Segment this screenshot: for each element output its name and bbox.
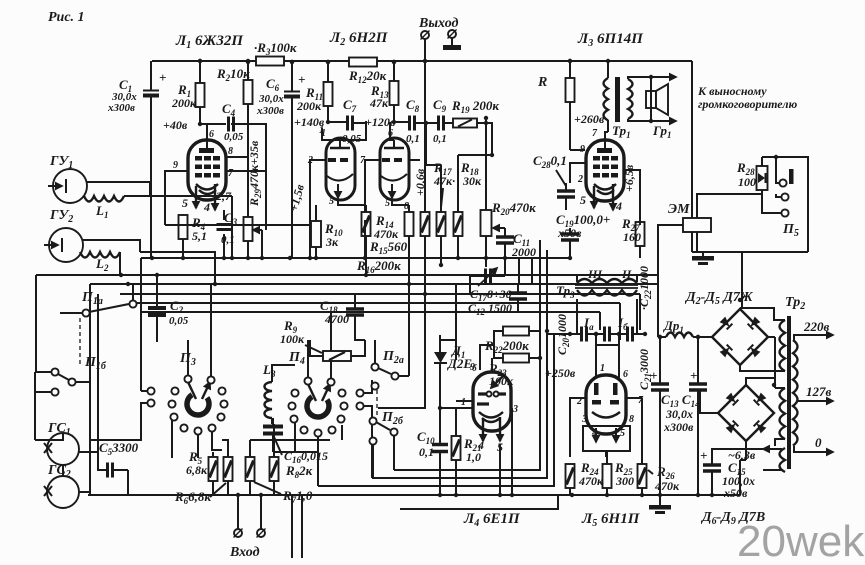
resistor R21 1,0 <box>452 436 461 460</box>
svg-text:1,0: 1,0 <box>466 450 481 464</box>
potentiometer R20 470k <box>481 210 492 236</box>
svg-text:0,1: 0,1 <box>406 133 420 145</box>
svg-text:Тр1: Тр1 <box>612 123 631 140</box>
svg-text:+: + <box>690 368 697 383</box>
potentiometer R29 470k+35v <box>244 217 253 241</box>
svg-text:47к: 47к <box>369 96 389 110</box>
svg-text:3к: 3к <box>325 235 339 249</box>
variable capacitor C17 <box>470 268 505 286</box>
svg-text:R19 200к: R19 200к <box>451 98 499 115</box>
svg-text:К выносному: К выносному <box>697 84 767 98</box>
svg-text:R20470к: R20470к <box>491 200 536 217</box>
coil L1 <box>84 196 124 202</box>
svg-text:8: 8 <box>228 146 233 157</box>
vacuum tube L1 <box>173 125 234 214</box>
svg-text:4: 4 <box>203 200 210 214</box>
resistor R <box>566 78 575 102</box>
svg-text:+120в: +120в <box>365 115 396 129</box>
ground EM <box>692 256 714 265</box>
svg-text:30,0х: 30,0х <box>258 93 284 105</box>
svg-text:Л2 6Н2П: Л2 6Н2П <box>329 30 389 48</box>
resistor R10 3k <box>311 221 321 247</box>
resistor R24 470k <box>566 464 575 488</box>
loudspeaker Gr1 <box>646 75 676 140</box>
P4 wires <box>295 312 372 486</box>
diode D1 D2E <box>434 335 472 436</box>
svg-text:+: + <box>650 368 657 383</box>
svg-text:П1б: П1б <box>84 355 107 372</box>
resistor R1 200k <box>196 83 205 107</box>
svg-text:127в: 127в <box>806 384 832 399</box>
svg-text:+40в: +40в <box>163 118 188 132</box>
svg-text:х50в: х50в <box>723 486 748 500</box>
diode bridge 2 <box>718 385 774 441</box>
svg-text:6: 6 <box>209 129 214 140</box>
svg-text:6,8к: 6,8к <box>186 463 208 477</box>
svg-text:+260в: +260в <box>574 112 605 126</box>
coil L2 <box>80 252 120 258</box>
svg-text:30,0х: 30,0х <box>665 407 693 421</box>
svg-text:0: 0 <box>815 435 822 450</box>
resistor R28 100 <box>757 166 768 190</box>
svg-text:Д2-Д5 Д7Ж: Д2-Д5 Д7Ж <box>684 290 754 307</box>
svg-text:R22200к: R22200к <box>484 338 529 355</box>
resistor R12 20k on bus <box>349 58 377 67</box>
mid vertical wires <box>318 240 554 486</box>
svg-text:1: 1 <box>461 397 466 408</box>
L2A pin wires <box>310 121 366 220</box>
svg-text:Iа: Iа <box>583 315 594 332</box>
dashed link <box>79 318 81 366</box>
svg-text:3: 3 <box>581 414 587 425</box>
tube L5 dual triode <box>576 363 644 439</box>
svg-text:R15560: R15560 <box>369 239 408 256</box>
resistor R8 2k <box>270 457 279 481</box>
output terminal 2 grounded <box>448 30 457 39</box>
bridge2 wires <box>700 378 774 460</box>
svg-text:5: 5 <box>385 198 390 209</box>
svg-text:·R3100к: ·R3100к <box>254 40 297 57</box>
svg-text:5: 5 <box>182 196 188 210</box>
gs wires <box>35 433 90 492</box>
svg-text:С6: С6 <box>266 76 280 93</box>
svg-text:470к: 470к <box>654 479 680 493</box>
wires to bus <box>165 196 365 258</box>
svg-text:R66,8к: R66,8к <box>174 489 211 506</box>
resistor bank wires <box>213 424 330 495</box>
svg-text:L2: L2 <box>95 256 109 273</box>
svg-text:220в: 220в <box>803 319 830 334</box>
bottom bus <box>88 494 740 496</box>
capacitor C9 0,1 <box>439 116 444 131</box>
capacitor C16 0,015 <box>263 427 283 434</box>
svg-text:Рис. 1: Рис. 1 <box>48 10 85 25</box>
svg-text:+1,5в: +1,5в <box>286 182 307 213</box>
capacitor C1 <box>143 91 159 96</box>
svg-text:200к: 200к <box>296 99 322 113</box>
svg-text:30к: 30к <box>462 174 482 188</box>
svg-text:С4: С4 <box>222 101 236 118</box>
Tr2 left winding lower <box>780 388 786 439</box>
top supply bus <box>152 60 692 62</box>
resistor R15 <box>405 212 414 236</box>
svg-text:+6,5в: +6,5в <box>622 164 636 192</box>
svg-text:ЭМ: ЭМ <box>668 202 690 217</box>
L5 cathode box <box>583 426 630 451</box>
P4 outer contacts <box>356 380 372 420</box>
resistor bank r17a <box>421 212 430 236</box>
L3 pin wires <box>570 132 640 225</box>
diode bridge 1 <box>712 309 768 365</box>
capacitor C7 0,05 <box>348 116 353 131</box>
resistor R27 160 <box>636 222 645 246</box>
transformer Tr1 <box>604 59 652 140</box>
vacuum tube L3 <box>577 128 624 213</box>
capacitor C6 <box>284 92 300 97</box>
svg-text:300: 300 <box>615 474 634 488</box>
svg-text:6: 6 <box>623 369 628 380</box>
svg-text:1: 1 <box>600 363 605 374</box>
dashed link p2 <box>376 390 378 416</box>
svg-text:·С221000: ·С221000 <box>637 266 653 310</box>
svg-text:7: 7 <box>592 128 598 139</box>
svg-text:Выход: Выход <box>418 16 459 31</box>
resistor R23 100k <box>503 354 529 363</box>
output terminal 1 <box>421 31 430 40</box>
svg-text:47к·: 47к· <box>433 174 455 188</box>
svg-text:+: + <box>298 72 305 87</box>
svg-text:2: 2 <box>577 174 583 185</box>
svg-text:Л5 6Н1П: Л5 6Н1П <box>581 511 641 529</box>
svg-text:+: + <box>700 448 707 463</box>
L2B pin wires <box>365 122 420 220</box>
svg-text:0,05: 0,05 <box>224 131 244 143</box>
resistor R22 200k <box>503 327 529 336</box>
input terminals <box>234 529 243 538</box>
svg-text:+250в: +250в <box>545 366 576 380</box>
svg-text:5,1: 5,1 <box>192 229 207 243</box>
svg-text:х300в: х300в <box>256 105 284 117</box>
svg-text:П1а: П1а <box>81 290 103 307</box>
svg-text:Л1 6Ж32П: Л1 6Ж32П <box>175 33 244 51</box>
Tr2 right winding <box>793 340 798 446</box>
capacitor C4 <box>229 117 234 132</box>
resistor R6 6,8k <box>224 457 233 481</box>
tube L2 half A <box>307 125 355 207</box>
svg-text:Гр1: Гр1 <box>652 123 672 140</box>
bus drops right <box>600 275 658 340</box>
svg-text:8: 8 <box>629 414 634 425</box>
Tr2 left winding upper <box>780 320 786 371</box>
svg-text:С53300: С53300 <box>99 440 139 457</box>
resistor R25 300 <box>603 464 612 488</box>
svg-text:R210к: R210к <box>216 66 250 83</box>
resistor R19 200k <box>453 119 477 128</box>
capacitor C11 2000 <box>496 237 514 243</box>
svg-text:9: 9 <box>470 362 475 373</box>
svg-text:ГУ2: ГУ2 <box>49 208 73 225</box>
svg-text:470к: 470к <box>578 474 604 488</box>
svg-text:4700: 4700 <box>324 312 349 326</box>
capacitor C12 1500 <box>509 293 527 299</box>
resistor R13 47k <box>390 81 399 105</box>
svg-text:100: 100 <box>738 175 756 189</box>
resistor R5 6,8k <box>209 457 218 481</box>
svg-text:С12 1500: С12 1500 <box>468 301 512 317</box>
resistor R3 on bus <box>256 57 284 66</box>
L1 pin wires <box>165 124 266 230</box>
right frame wire <box>691 61 693 252</box>
svg-text:20wek: 20wek <box>737 517 865 565</box>
svg-text:R1220к: R1220к <box>348 68 387 85</box>
svg-text:х300в: х300в <box>663 420 694 434</box>
svg-text:L1: L1 <box>95 203 108 220</box>
svg-text:Тр2: Тр2 <box>785 295 805 312</box>
svg-text:Вход: Вход <box>229 545 260 560</box>
capacitor C3 0,1 <box>217 225 232 230</box>
L5 pin wires <box>570 398 642 457</box>
svg-text:5: 5 <box>580 193 586 207</box>
resistor R11 200k <box>324 82 333 106</box>
Tr2 bottom winding <box>780 448 786 472</box>
svg-text:С8: С8 <box>406 97 420 114</box>
svg-text:С9: С9 <box>433 97 447 114</box>
resistor R2 10k <box>244 80 253 104</box>
svg-text:П4: П4 <box>288 350 305 367</box>
resistor R4 5,1 <box>179 215 188 239</box>
svg-text:громкоговорителю: громкоговорителю <box>698 97 797 111</box>
svg-text:9: 9 <box>173 160 178 171</box>
svg-text:Л3 6П14П: Л3 6П14П <box>577 31 644 49</box>
capacitor C8 0,1 <box>410 116 415 131</box>
resistor R18 30k <box>454 212 463 236</box>
switch P5 <box>776 157 794 217</box>
svg-text:R16200к: R16200к <box>356 258 401 275</box>
P3 outer contacts <box>141 387 155 420</box>
svg-text:2000: 2000 <box>511 245 536 259</box>
svg-text:R82к: R82к <box>285 463 313 480</box>
svg-text:Л4 6Е1П: Л4 6Е1П <box>463 511 521 529</box>
svg-text:160: 160 <box>623 230 641 244</box>
svg-text:П5: П5 <box>782 222 799 239</box>
svg-text:200к: 200к <box>171 96 197 110</box>
resistor R14 470k <box>362 212 371 236</box>
main bus rows <box>141 257 570 259</box>
P3 wires <box>172 284 222 458</box>
svg-text:4: 4 <box>615 199 622 213</box>
svg-text:С2: С2 <box>170 298 184 315</box>
bridge1 wires <box>693 308 775 388</box>
svg-text:П2а: П2а <box>382 349 404 366</box>
svg-text:+: + <box>159 70 166 85</box>
svg-text:5: 5 <box>620 428 625 439</box>
capacitor C2 0,05 <box>148 308 166 315</box>
tube L4 magic eye <box>461 362 518 454</box>
svg-text:100к: 100к <box>280 332 305 346</box>
L4 pin wires <box>456 358 512 495</box>
resistor R26 470k <box>638 464 647 488</box>
resistor R17 47k <box>437 212 446 236</box>
svg-text:R71,0: R71,0 <box>282 488 313 505</box>
svg-text:R29470к+35в: R29470к+35в <box>247 140 263 207</box>
svg-text:0,1: 0,1 <box>433 133 447 145</box>
bus drop left <box>90 284 98 495</box>
svg-text:4: 4 <box>477 438 484 452</box>
svg-text:х300в: х300в <box>107 102 135 114</box>
svg-text:R: R <box>537 75 547 90</box>
svg-text:Тр3: Тр3 <box>556 283 575 300</box>
svg-text:7: 7 <box>228 168 234 179</box>
svg-text:П2б: П2б <box>381 410 404 427</box>
right frame from R28 to Tr2 <box>692 157 808 308</box>
ground center <box>659 495 661 505</box>
svg-text:0,1: 0,1 <box>419 445 434 459</box>
svg-text:С7: С7 <box>343 97 357 114</box>
resistor bank mid <box>246 457 255 481</box>
tube L2 half B <box>360 138 409 212</box>
svg-text:0,05: 0,05 <box>169 315 189 327</box>
capacitor C20 chain <box>547 327 645 346</box>
svg-text:5: 5 <box>329 196 334 207</box>
svg-text:С280,1: С280,1 <box>533 153 567 170</box>
